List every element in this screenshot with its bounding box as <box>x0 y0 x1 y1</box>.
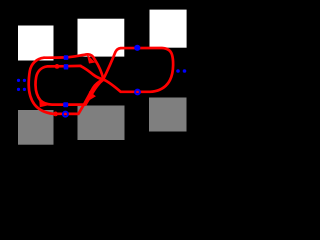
arrowhead A2 on inner arc flattening <box>39 100 48 107</box>
wire T1: outer lobe top line bending down into crossing <box>44 54 103 79</box>
wire inner lobe: top line, left arc, bottom line, diagonal D2 to crossing <box>35 66 103 105</box>
wire T2: inner top line slope down into crossing <box>81 66 104 80</box>
white square S2 <box>78 19 125 57</box>
red dot on inner top line <box>55 64 60 69</box>
wire right lobe <box>103 48 173 92</box>
blue ring M5 right lobe bottom line <box>135 90 140 95</box>
blue marker M3 inner bottom line <box>63 102 68 107</box>
blue dot grid left of left lobe <box>17 79 20 82</box>
gray square G3 <box>149 98 187 132</box>
arrowhead A1 on top bend <box>87 54 96 63</box>
arrowhead A3 on diagonal D1 <box>87 91 96 102</box>
red dot on outer bottom line <box>53 112 58 117</box>
blue marker M1 top line <box>64 55 69 60</box>
blue dot pair right of right lobe <box>176 69 180 73</box>
gray square G2 <box>78 106 125 141</box>
blue ring M4 outer bottom line <box>63 112 68 117</box>
blue marker M8 right lobe top line <box>134 45 140 51</box>
wire outer lobe: left arc, bottom line, diagonal D1 to crossing <box>29 58 104 114</box>
gray square G1 <box>18 110 54 145</box>
white square S3 <box>150 10 187 48</box>
blue marker M2 inner top line <box>64 64 69 69</box>
white square S1 <box>18 26 54 61</box>
